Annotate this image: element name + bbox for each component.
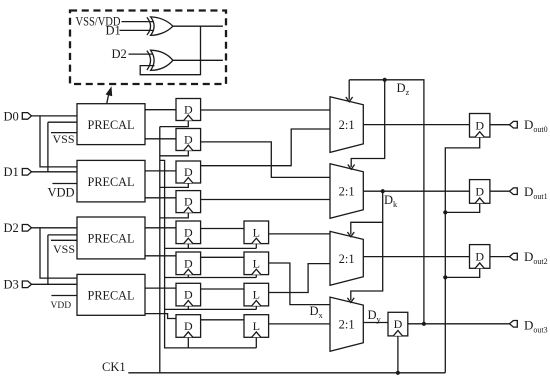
clock input FF8 (184, 332, 193, 337)
wire VSS to PRECAL1 (51, 132, 77, 134)
output pin Dout2 (510, 253, 518, 260)
wire U1 feedback to U2 (140, 26, 200, 74)
wire D2 tap to PRECAL4 (40, 228, 77, 278)
wire L6 to mux M4 in0 (Dx) (269, 263, 330, 305)
wire Dk to M3 select (351, 193, 383, 235)
junction clock FF10 (443, 210, 447, 214)
input pin D0 (22, 113, 31, 120)
select arrow M2 (348, 165, 355, 170)
mux M4 2:1 (330, 297, 363, 351)
wire VSS/VDD to U1 (122, 21, 155, 23)
clock input L6 (252, 269, 261, 274)
wire clock line row5 (165, 247, 257, 249)
svg-text:D: D (475, 185, 484, 199)
wire D1 to U1 (120, 29, 155, 31)
wire clock stub FF12 (397, 336, 399, 373)
latch L7 (row 7) (244, 283, 269, 306)
svg-text:D0: D0 (4, 109, 19, 123)
wire D3 to PRECAL4 (32, 283, 78, 285)
svg-text:D: D (184, 225, 193, 239)
wire VDD to PRECAL4 (51, 295, 77, 297)
wire M3 out to FF11 (363, 256, 469, 258)
D flip-flop FF3 (rank1 row 3) (176, 161, 201, 183)
wire M1 out to FF9 (363, 124, 469, 126)
svg-text:VSS: VSS (53, 132, 75, 146)
wire CK1 main line (128, 372, 445, 374)
wire PRECAL1 out2 to D FF r2 (145, 138, 176, 140)
svg-text:D3: D3 (4, 278, 19, 292)
wire clock riser FF6 (187, 275, 189, 278)
wire clock riser FF8 (187, 337, 189, 348)
svg-text:2:1: 2:1 (339, 318, 355, 332)
wire clock riser FF7 (187, 306, 189, 310)
wire clock riser L6 (255, 275, 257, 278)
svg-text:D2: D2 (112, 47, 127, 61)
wire VDD to PRECAL2 (52, 183, 77, 185)
wire FF8 to L8 (201, 319, 244, 321)
latch L5 (row 5) (244, 221, 269, 244)
clock input FF10 (475, 198, 484, 203)
wire FF6 to L6 (201, 256, 244, 258)
svg-text:CK1: CK1 (102, 360, 126, 374)
wire clock riser L7 (255, 306, 257, 310)
wire PRECAL2 out1 to D FF r3 (145, 170, 176, 172)
wire FF12 to Dout3 pin (Dz source) (408, 323, 510, 325)
input pin D2 (22, 225, 31, 232)
svg-text:D: D (475, 118, 484, 132)
wire FF3 to mux M1 in1 (201, 129, 330, 166)
PRECAL block 4 (77, 274, 145, 315)
wire D2 to PRECAL3 (32, 227, 78, 229)
mux M3 2:1 (330, 231, 363, 285)
latch L6 (row 6) (244, 252, 269, 275)
output pin Dout3 (510, 321, 518, 328)
wire FF9 to Dout0 pin (490, 124, 510, 126)
wire PRECAL4 out1 to D FF r7 (145, 287, 176, 289)
wire L7 to mux M3 in1 (269, 264, 330, 293)
junction clock FF12 (396, 371, 400, 375)
wire Dk to M4 select (351, 222, 383, 300)
junction Dz/M2-select (383, 78, 387, 82)
wire FF10 to Dout1 pin (490, 190, 510, 192)
clock input FF12 (393, 331, 402, 336)
wire PRECAL3 out2 to D FF r6 (145, 255, 176, 257)
svg-text:D: D (184, 256, 193, 270)
wire FF1 to mux M1 in0 (201, 109, 330, 111)
wire L8 to mux M4 in1 (269, 323, 330, 325)
select arrow M1 (346, 97, 353, 102)
D flip-flop FF4 (rank1 row 4) (176, 191, 201, 213)
xor gate U1 (147, 17, 173, 36)
svg-text:VDD: VDD (48, 186, 75, 200)
wire clock stub FF3 (160, 183, 189, 187)
clock input FF4 (184, 207, 193, 212)
svg-text:D2: D2 (4, 221, 19, 235)
wire D3 tap to PRECAL3 (48, 234, 77, 236)
clock input FF7 (184, 301, 193, 306)
wire CK1 right bus (445, 137, 479, 373)
svg-text:D: D (184, 288, 193, 302)
D flip-flop FF10 (output rank) (470, 180, 490, 204)
clock input L5 (252, 238, 261, 243)
select arrow M4 (347, 298, 354, 303)
wire clock stub FF1 (160, 121, 189, 127)
wire M4 out to FF12 (Dy) (363, 322, 388, 324)
wire D1 tap vertical (47, 122, 49, 172)
output pin Dout0 (510, 121, 518, 128)
svg-text:D: D (475, 250, 484, 264)
wire D0 tap to PRECAL2 (40, 116, 77, 167)
wire PRECAL3 out1 to D FF r5 (145, 227, 176, 229)
PRECAL block 3 (77, 217, 145, 259)
svg-text:D1: D1 (4, 165, 19, 179)
select arrow M3 (347, 232, 354, 237)
wire FF4 to mux M2 in1 (201, 199, 330, 201)
D flip-flop FF5 (rank1 row 5) (176, 221, 201, 244)
wire U1 output (173, 25, 223, 27)
wire U2 output (173, 59, 223, 61)
clock input FF2 (184, 145, 193, 150)
clock input FF5 (184, 238, 193, 243)
wire PRECAL2 out2 to D FF r4 (145, 197, 176, 199)
D flip-flop FF6 (rank1 row 6) (176, 252, 201, 275)
mux M2 2:1 (330, 164, 363, 219)
wire clock riser L5 (255, 244, 257, 249)
wire clock stub FF10 (445, 203, 479, 212)
wire clock stub FF4 (160, 213, 189, 218)
clock input FF9 (475, 132, 484, 137)
clock input FF6 (184, 269, 193, 274)
wire clock stub FF11 (445, 268, 479, 277)
wire clock line row7 (165, 308, 257, 310)
wire Dz net bus (349, 80, 424, 324)
wire FF5 to L5 (201, 228, 244, 230)
wire D3 tap vertical (47, 235, 49, 284)
input pin D3 (22, 281, 31, 288)
xor gate U2 (147, 50, 173, 70)
wire Dz to M1 select (348, 80, 350, 100)
svg-text:PRECAL: PRECAL (88, 117, 135, 132)
clock input L8 (252, 332, 261, 337)
junction Dz tap on FF12 output (422, 322, 426, 326)
wire CK1 right branch / row8 clock line (160, 160, 256, 348)
wire D1 tap to PRECAL1 (48, 121, 77, 123)
D flip-flop FF7 (rank1 row 7) (176, 283, 201, 306)
PRECAL block 1 (77, 104, 145, 145)
wire CK1 left bus (159, 127, 161, 373)
wire M2 out to FF10 (Dk) (363, 190, 469, 192)
wire PRECAL4 out2 to D FF r8 (145, 314, 176, 319)
wire Dz to M2 select (351, 80, 385, 167)
clock input FF1 (184, 115, 193, 120)
D flip-flop FF2 (rank1 row 2) (176, 129, 201, 151)
wire clock line row6 (165, 277, 257, 279)
wire clock stub FF2 (160, 151, 189, 156)
PRECAL block 2 (77, 160, 145, 202)
D flip-flop FF12 (output rank) (388, 312, 408, 336)
output pin Dout1 (510, 188, 518, 195)
clock input FF3 (184, 178, 193, 183)
svg-text:D: D (394, 317, 403, 331)
junction Dk (381, 189, 385, 193)
D flip-flop FF1 (rank1 row 1) (176, 99, 201, 121)
D flip-flop FF8 (rank1 row 8) (176, 315, 201, 338)
wire clock riser FF5 (187, 244, 189, 249)
latch L8 (row 8) (244, 315, 269, 338)
svg-text:2:1: 2:1 (339, 252, 355, 266)
wire D2 to U2 (129, 53, 155, 55)
dashed inset box (PRECAL detail) (70, 11, 226, 85)
svg-text:PRECAL: PRECAL (88, 231, 135, 246)
wire FF2 to mux M2 in0 (201, 142, 330, 178)
svg-text:PRECAL: PRECAL (88, 174, 135, 189)
svg-text:D: D (184, 319, 193, 333)
D flip-flop FF11 (output rank) (470, 245, 490, 269)
annotation arrow to PRECAL1 (106, 86, 113, 103)
wire D0 to PRECAL1 (32, 115, 78, 117)
clock input L7 (252, 301, 261, 306)
svg-text:PRECAL: PRECAL (88, 287, 135, 302)
wire VSS to PRECAL3 (51, 239, 77, 241)
wire PRECAL1 out1 to D FF r1 (145, 109, 176, 111)
wire L5 to mux M3 in0 (269, 233, 330, 235)
D flip-flop FF9 (output rank) (470, 114, 490, 138)
svg-text:VDD: VDD (51, 301, 72, 311)
wire D1 to PRECAL2 (32, 171, 78, 173)
wire FF11 to Dout2 pin (490, 256, 510, 258)
junction clock FF11 (443, 275, 447, 279)
svg-text:D1: D1 (106, 24, 121, 38)
svg-text:2:1: 2:1 (339, 118, 355, 132)
svg-text:2:1: 2:1 (339, 184, 355, 198)
input pin D1 (22, 169, 31, 176)
wire FF7 to L7 (201, 288, 244, 290)
wire clock riser L8 (255, 337, 257, 348)
clock input FF11 (475, 263, 484, 268)
svg-text:VSS: VSS (53, 242, 75, 256)
mux M1 2:1 (330, 97, 363, 153)
